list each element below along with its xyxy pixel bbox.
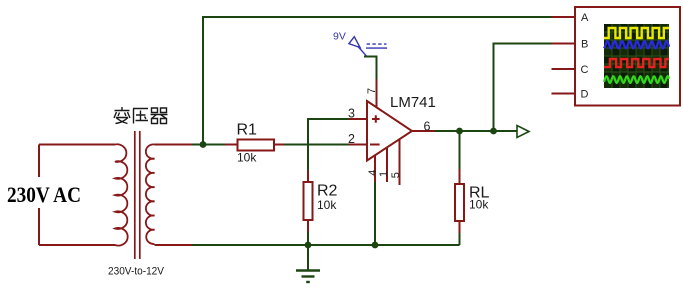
waveform blue sine [604, 41, 669, 48]
op-amp minus sign [370, 144, 380, 146]
oscilloscope pin A [552, 16, 576, 18]
oscilloscope screen [604, 24, 669, 88]
op-amp pin1 stub [386, 147, 388, 182]
node junction RL [456, 128, 463, 135]
9V lead line [358, 47, 367, 57]
wire pin4 to bottom rail [374, 182, 376, 245]
oscilloscope pin D [552, 93, 576, 95]
op-amp U1 triangle [367, 101, 412, 161]
wire output to RL [459, 131, 461, 170]
svg-text:A: A [581, 12, 589, 24]
transformer T1 primary coil [115, 144, 128, 245]
resistor RL top pin [459, 169, 461, 184]
oscilloscope pin C [552, 68, 576, 70]
svg-text:10k: 10k [469, 198, 489, 212]
resistor RL body [455, 184, 464, 221]
char 压 [133, 109, 148, 124]
wire pin3 branch corner [308, 119, 350, 170]
svg-text:2: 2 [348, 132, 355, 146]
resistor R1 body [238, 140, 275, 151]
wire 230VAC left loop [39, 145, 115, 246]
oscilloscope body [575, 7, 680, 106]
ground [307, 245, 309, 270]
svg-text:R1: R1 [237, 122, 258, 139]
node junction pin4/bottom rail [372, 242, 379, 249]
char 器 [151, 108, 168, 124]
wire R2 to bottom rail [307, 232, 309, 245]
svg-text:R2: R2 [317, 183, 338, 200]
op-amp pin5 stub [399, 139, 401, 185]
wire RL to bottom rail [459, 233, 461, 245]
svg-text:D: D [581, 89, 589, 101]
resistor R2 bottom pin [307, 220, 309, 233]
svg-text:B: B [581, 39, 588, 51]
9V dashed bar [367, 43, 387, 45]
wire scope B branch vertical+horizontal [494, 44, 553, 132]
oscilloscope pin B [552, 43, 576, 45]
waveform green sine [604, 76, 669, 83]
transformer T1 core [135, 131, 140, 259]
resistor R2 body [304, 182, 313, 220]
node junction R2/ground [305, 242, 312, 249]
transformer secondary top pin [155, 144, 193, 146]
resistor RL bottom pin [459, 221, 461, 234]
transformer secondary bottom pin [155, 244, 193, 246]
transformer T1 secondary coil [146, 144, 155, 244]
svg-text:C: C [581, 64, 589, 76]
op-amp plus sign [372, 115, 380, 123]
svg-text:6: 6 [424, 120, 431, 134]
svg-text:10k: 10k [317, 198, 337, 212]
op-amp pin2 stub [349, 144, 367, 146]
node junction at transformer output [200, 141, 207, 148]
svg-text:1: 1 [378, 171, 390, 177]
wire output [435, 130, 518, 132]
svg-text:5: 5 [390, 172, 402, 178]
svg-text:10k: 10k [237, 151, 257, 165]
node junction scope B [490, 128, 497, 135]
waveform yellow square [604, 28, 669, 38]
op-amp pin4 stub [374, 155, 376, 183]
resistor R2 top pin [307, 170, 309, 182]
label 变压器 (hand-drawn strokes) [114, 107, 168, 124]
svg-text:3: 3 [348, 107, 355, 121]
op-amp pin7 stub [376, 79, 378, 108]
resistor R1 right pin [274, 144, 285, 146]
svg-text:230V-to-12V: 230V-to-12V [108, 266, 165, 278]
9V supply symbol (blue) [349, 37, 387, 57]
label 230V AC background [4, 177, 86, 208]
op-amp pin3 stub [349, 118, 367, 120]
op-amp pin6 stub [412, 130, 436, 132]
svg-text:LM741: LM741 [390, 94, 436, 111]
wire top horizontal to oscilloscope A [202, 16, 552, 18]
svg-text:230V AC: 230V AC [7, 182, 81, 207]
wire top-left vertical from transformer node up [202, 17, 204, 145]
9V solid bar [366, 47, 387, 49]
wire 9V to op-amp pin7 [364, 57, 377, 81]
9V arrowhead triangle [349, 37, 360, 48]
wire transformer node to R1 [192, 144, 226, 146]
waveform red square [604, 59, 669, 67]
svg-text:7: 7 [366, 88, 378, 94]
wire R1 to op-amp pin2 [284, 144, 350, 146]
bottom rail wire [192, 244, 460, 246]
char 变 [114, 107, 130, 124]
resistor R1 left pin [225, 144, 238, 146]
svg-text:9V: 9V [333, 31, 346, 43]
output terminal arrow [517, 126, 529, 138]
